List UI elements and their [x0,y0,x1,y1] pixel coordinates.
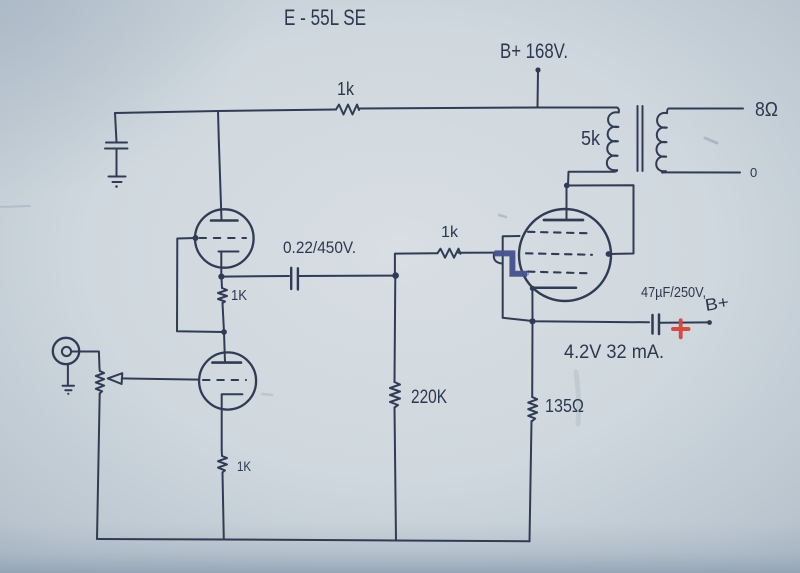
V3 suppressor grid g3 (dashed) [528,232,590,234]
V1 plate [211,219,238,222]
svg-text:1k: 1k [337,79,355,99]
ground dot (C1) [115,185,118,188]
node V3 plate junction dot [564,183,570,189]
input jack J1 inner [62,347,71,356]
capacitor C1 [105,143,128,149]
V2 cathode [222,394,243,450]
node B+ terminal dot [707,320,712,325]
V1 grid (dashed) [200,237,247,239]
node B+ feed dot [535,67,540,72]
wire R6 to bottom rail [530,421,532,541]
node cathode/cap junction dot [529,318,535,324]
ground dot (jack) [67,393,69,395]
V3 grid entry hook [494,254,502,264]
svg-text:B+: B+ [704,292,731,315]
red plus polarity mark [673,320,689,337]
svg-text:1k: 1k [441,224,459,241]
svg-text:135Ω: 135Ω [545,396,584,416]
wire cathode down to R6 [531,321,533,397]
node V3 screen edge dot [606,251,612,257]
resistor R1 1k (top rail) [336,105,359,115]
wire secondary top lead (8 ohm) [669,108,744,110]
wire V1 plate lead from top rail [218,111,222,220]
svg-text:8Ω: 8Ω [755,99,778,121]
svg-text:1K: 1K [237,458,252,474]
ground (jack) [63,386,75,390]
wire V3 cathode drop [531,288,533,321]
wire C3 to B+ terminal [660,321,708,323]
V1 cathode [219,252,239,277]
resistor R5 220K [390,382,400,408]
wire g3 tie to cathode rail [503,236,520,318]
V3 cathode [533,287,576,290]
wire grid node up to R4 [395,253,438,275]
wire R4 to V3 grid [459,252,496,254]
wire jack to pot [71,352,100,369]
capacitor C3 47uF plates [653,315,660,335]
wire V1 cathode to R2 [220,277,223,288]
tube V1 envelope [195,209,254,267]
tube V2 envelope [199,352,256,409]
svg-text:5k: 5k [581,128,601,150]
wire grid node down to R5 [394,276,397,382]
node V1 grid dot [193,235,199,241]
transformer T1 primary winding [607,108,619,172]
transformer T1 secondary winding [656,109,668,173]
node V1 cathode junction dot [218,274,224,280]
wire V3 plate lead [566,186,568,221]
ground (C1) [109,177,126,183]
svg-text:1K: 1K [231,287,247,304]
wire cathode bottom rail to C3 [503,318,649,323]
wire screen to plate (triode strap) [567,185,634,254]
node V3 cathode edge dot [530,286,535,291]
wire R2 to V2 plate node [223,303,225,332]
V3 control grid g1 (dashed) [528,272,589,274]
capacitor C2 0.22uF [291,268,298,290]
wire C2 to grid node [299,275,394,277]
svg-text:B+ 168V.: B+ 168V. [500,40,568,63]
wire top rail B+ [115,108,617,114]
wire R3 to bottom rail [223,473,224,540]
tube V3 envelope [519,209,611,301]
resistor R6 135ohm [528,397,537,421]
wire V1 cathode to C2 [221,275,289,278]
svg-text:E - 55L SE: E - 55L SE [284,5,366,30]
wire B+ feed drop [537,71,540,108]
resistor R2 1K (V1 cathode / V2 plate load) [218,288,227,303]
wire secondary bottom lead (0) [663,171,741,173]
node V2 plate junction dot [221,329,227,335]
wire V2 plate lead [224,332,225,363]
pot wiper arrow [108,373,123,384]
blue marker highlight (V3 grid) [495,253,528,273]
wire jack sleeve to ground [67,364,69,385]
resistor R4 1k (grid stopper) [438,249,461,258]
faint paper smudges [0,138,717,424]
V2 grid (dashed) [203,379,246,381]
wire bottom rail [97,539,530,541]
potentiometer P1 [96,368,104,394]
V3 plate [544,219,583,222]
V2 plate [212,361,241,364]
node grid junction dot [392,272,399,279]
transformer T1 core [638,106,643,171]
V3 screen grid g2 (dashed) [526,253,592,255]
svg-text:47µF/250V,: 47µF/250V, [641,285,706,301]
wire pot to bottom rail [97,394,100,540]
svg-text:4.2V 32 mA.: 4.2V 32 mA. [564,342,664,363]
wire T1 primary bottom lead [568,172,614,186]
input jack J1 outer [53,338,79,364]
wire wiper to V2 grid [122,378,199,379]
svg-text:0: 0 [750,165,757,180]
resistor R3 1K (V2 cathode) [218,450,227,472]
wire left drop to C1 [115,113,117,142]
wire C1 to ground [116,149,118,177]
svg-text:0.22/450V.: 0.22/450V. [283,238,356,257]
svg-text:220K: 220K [411,387,447,408]
wire V1 grid to V2 plate node [177,238,224,332]
wire R5 to bottom rail [395,408,397,541]
